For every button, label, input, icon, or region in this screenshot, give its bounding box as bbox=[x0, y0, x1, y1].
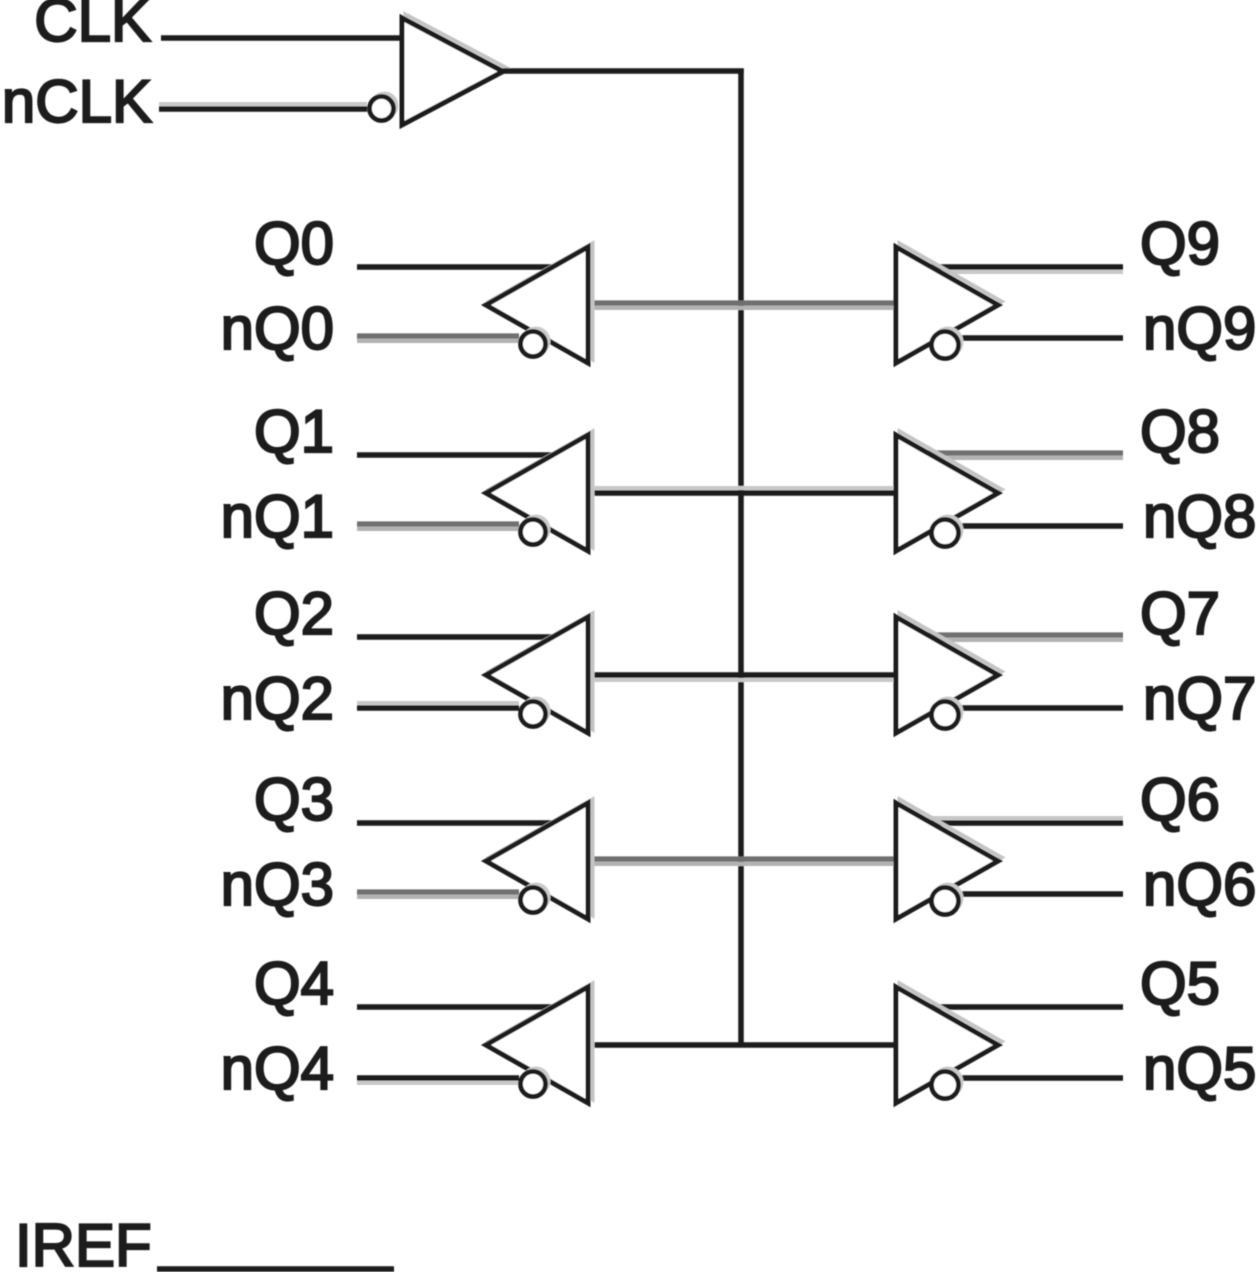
svg-text:Q2: Q2 bbox=[254, 580, 334, 647]
svg-text:Q9: Q9 bbox=[1140, 210, 1220, 277]
svg-text:Q5: Q5 bbox=[1140, 950, 1220, 1017]
wire Q6 output bbox=[928, 816, 1123, 820]
inversion bubble on nQ3 pin bbox=[524, 885, 549, 910]
wire Q4 output bbox=[357, 1004, 556, 1010]
wire IREF stub bbox=[157, 1266, 394, 1272]
svg-text:nQ2: nQ2 bbox=[221, 665, 334, 732]
wire nCLK input bbox=[159, 102, 367, 106]
inversion bubble on nQ5 pin bbox=[935, 1069, 962, 1096]
svg-text:nQ7: nQ7 bbox=[1143, 665, 1256, 732]
wire Q9 output bbox=[928, 270, 1123, 274]
wire nQ2 output bbox=[357, 701, 519, 705]
wire bus to buffers row 0 bbox=[588, 300, 896, 305]
svg-text:nQ8: nQ8 bbox=[1143, 483, 1256, 550]
svg-text:nQ1: nQ1 bbox=[221, 483, 334, 550]
wire Q8 output bbox=[928, 450, 1123, 455]
svg-text:Q6: Q6 bbox=[1140, 766, 1220, 833]
wire nQ5 output bbox=[952, 1075, 1123, 1081]
wire bus to buffers row 4 bbox=[588, 1042, 896, 1048]
svg-text:nQ4: nQ4 bbox=[221, 1035, 334, 1102]
svg-text:nQ5: nQ5 bbox=[1143, 1035, 1256, 1102]
svg-text:IREF: IREF bbox=[15, 1212, 152, 1272]
wire Q1 output bbox=[357, 452, 556, 458]
inversion bubble on nQ8 pin bbox=[935, 517, 962, 544]
inversion bubble on nQ4 pin bbox=[524, 1069, 549, 1094]
inversion bubble on nQ2 pin bbox=[524, 699, 549, 724]
output buffer driving Q6/nQ6 bbox=[900, 800, 1002, 916]
svg-text:nQ3: nQ3 bbox=[221, 851, 334, 918]
output buffer driving Q7/nQ7 bbox=[900, 614, 1002, 730]
output buffer driving Q2/nQ2 bbox=[490, 614, 593, 730]
inversion bubble on nQ0 pin bbox=[524, 329, 549, 354]
svg-text:nCLK: nCLK bbox=[2, 68, 152, 135]
svg-text:nQ9: nQ9 bbox=[1143, 295, 1256, 362]
svg-text:nQ0: nQ0 bbox=[221, 295, 334, 362]
wire Q5 output bbox=[928, 1004, 1123, 1010]
wire nQ4 output bbox=[357, 1081, 519, 1085]
wire nQ9 output bbox=[952, 335, 1123, 341]
svg-text:Q7: Q7 bbox=[1140, 580, 1220, 647]
svg-text:CLK: CLK bbox=[34, 0, 151, 54]
svg-text:nQ6: nQ6 bbox=[1143, 851, 1256, 918]
output buffer driving Q5/nQ5 bbox=[900, 984, 1002, 1100]
wire clock distribution bus (vertical) bbox=[738, 69, 744, 1046]
input buffer U1 (differential receiver) bbox=[406, 15, 507, 122]
wire bus to buffers row 3 bbox=[588, 856, 896, 861]
svg-text:Q0: Q0 bbox=[254, 210, 334, 277]
wire Q0 output bbox=[357, 264, 556, 270]
svg-text:Q3: Q3 bbox=[254, 766, 334, 833]
output buffer driving Q1/nQ1 bbox=[490, 432, 593, 548]
wire Q7 output bbox=[928, 632, 1123, 637]
svg-text:Q1: Q1 bbox=[254, 398, 334, 465]
wire nQ8 output bbox=[952, 523, 1123, 529]
inversion bubble on U1 nCLK pin bbox=[373, 94, 397, 118]
output buffer driving Q8/nQ8 bbox=[900, 432, 1002, 548]
wire nQ1 output bbox=[357, 521, 519, 526]
wire bus to buffers row 1 bbox=[588, 486, 896, 490]
wire nQ6 output bbox=[952, 891, 1123, 897]
output buffer driving Q0/nQ0 bbox=[490, 244, 593, 360]
svg-text:Q8: Q8 bbox=[1140, 398, 1220, 465]
wire CLK input bbox=[161, 35, 404, 41]
svg-text:Q4: Q4 bbox=[254, 950, 334, 1017]
inversion bubble on nQ6 pin bbox=[935, 885, 962, 912]
wire nQ0 output bbox=[357, 333, 519, 338]
output buffer driving Q4/nQ4 bbox=[490, 984, 593, 1100]
wire bus to buffers row 2 bbox=[588, 678, 896, 682]
wire U1 output to bus bbox=[503, 68, 744, 74]
wire Q2 output bbox=[357, 634, 556, 640]
wire Q3 output bbox=[357, 820, 556, 826]
wire nQ3 output bbox=[357, 889, 519, 894]
inversion bubble on nQ9 pin bbox=[935, 329, 962, 356]
inversion bubble on nQ1 pin bbox=[524, 517, 549, 542]
wire nQ7 output bbox=[952, 705, 1123, 711]
inversion bubble on nQ7 pin bbox=[935, 699, 962, 726]
output buffer driving Q9/nQ9 bbox=[900, 244, 1002, 360]
output buffer driving Q3/nQ3 bbox=[490, 800, 593, 916]
